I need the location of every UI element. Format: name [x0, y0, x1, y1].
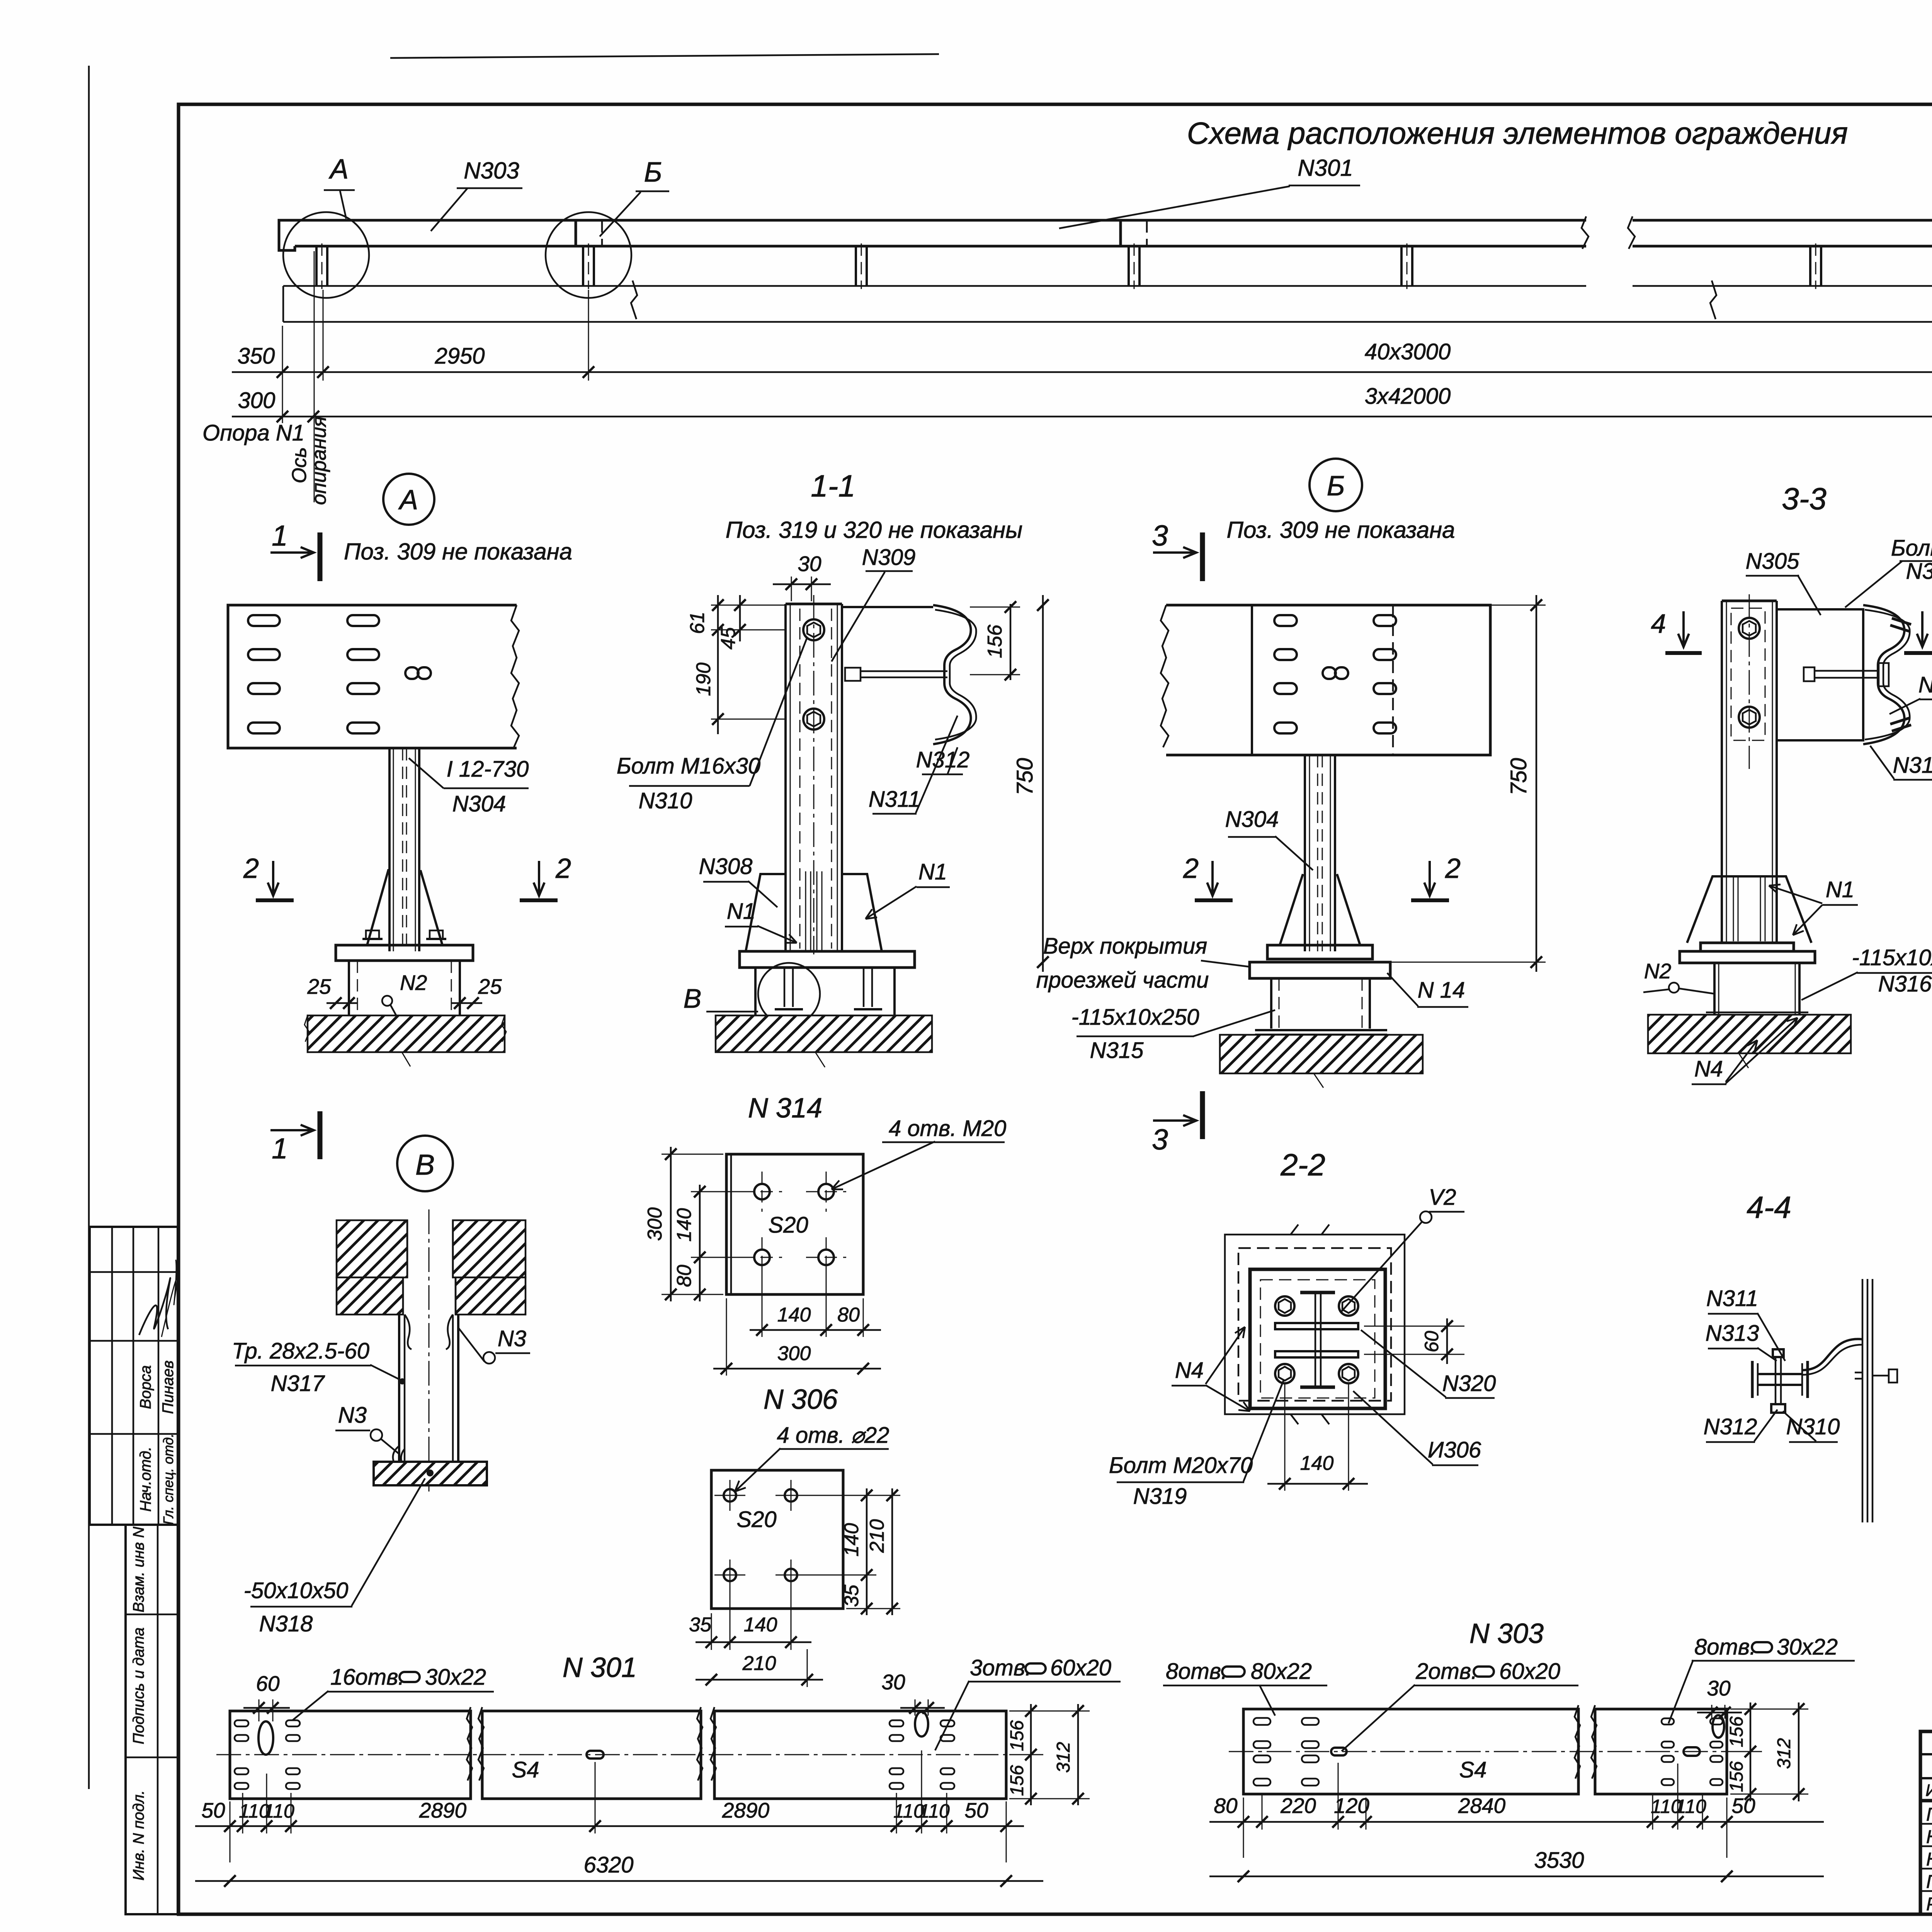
plan dim line 3x42000 [232, 416, 1932, 418]
dim 750 right of B [1536, 595, 1537, 972]
svg-text:Верх покрытия: Верх покрытия [1043, 934, 1207, 959]
svg-text:30: 30 [881, 1670, 905, 1694]
detail V slot walls [406, 1220, 408, 1277]
svg-text:2: 2 [243, 853, 259, 884]
N301 dim 6320 [195, 1880, 1043, 1882]
svg-text:Н.контр.: Н.контр. [1926, 1849, 1932, 1870]
3-3 concrete footing [1648, 1015, 1851, 1053]
svg-text:4: 4 [1651, 609, 1666, 639]
svg-text:8отв.: 8отв. [1694, 1634, 1756, 1660]
svg-text:Взам. инв N: Взам. инв N [130, 1527, 147, 1612]
view A plate slots [248, 615, 280, 626]
N306 dims 140 210 right [866, 1488, 868, 1615]
2-2 dashed square [1238, 1248, 1391, 1401]
4-4 rail lines [1862, 1279, 1864, 1522]
1-1 base plate [740, 951, 915, 968]
svg-text:N 14: N 14 [1418, 978, 1465, 1003]
view A base stiffeners [367, 870, 389, 945]
svg-text:N316: N316 [1878, 971, 1932, 997]
N301 middle slot [587, 1751, 604, 1759]
N303 break marks [1575, 1705, 1597, 1779]
svg-text:N311: N311 [869, 787, 920, 812]
svg-text:4 отв. ⌀22: 4 отв. ⌀22 [777, 1423, 889, 1448]
plan beam bottom edge right part [1633, 245, 1932, 248]
svg-text:156: 156 [1726, 1716, 1747, 1747]
plan beam left end cap [279, 220, 295, 250]
view A concrete footing [308, 1015, 505, 1052]
2-2 connection plates N320 [1275, 1323, 1358, 1329]
N303 left end slots [1253, 1718, 1270, 1725]
svg-text:30х22: 30х22 [425, 1665, 486, 1690]
3-3 base plate wide [1680, 951, 1815, 963]
N303 right middle slot [1684, 1747, 1700, 1756]
plan post at 833 [315, 246, 318, 286]
svg-text:4 отв. М20: 4 отв. М20 [889, 1116, 1006, 1141]
svg-text:2: 2 [1445, 853, 1461, 884]
N301 right slot 30 vertical [915, 1712, 928, 1736]
dim 750 left of B [1042, 595, 1044, 972]
svg-text:N301: N301 [1298, 155, 1353, 181]
svg-text:45: 45 [717, 627, 740, 650]
svg-text:Подпись и дата: Подпись и дата [130, 1628, 147, 1745]
svg-text:6320: 6320 [583, 1852, 633, 1878]
svg-text:312: 312 [1774, 1738, 1794, 1769]
N303 centerline [1229, 1751, 1743, 1752]
svg-text:50: 50 [201, 1798, 225, 1822]
svg-text:Гл. инж. пр: Гл. инж. пр [1926, 1804, 1932, 1825]
svg-text:Изм.: Изм. [1925, 1781, 1932, 1800]
2-2 bolts [1275, 1296, 1294, 1316]
1-1 rail W profile [933, 605, 971, 744]
N301 dim line 1 [195, 1825, 1024, 1827]
2-2 I-beam section [1300, 1291, 1335, 1294]
svg-text:N320: N320 [1442, 1371, 1496, 1396]
svg-text:В: В [684, 983, 702, 1014]
N303 dim line 1 [1209, 1821, 1824, 1823]
svg-text:N318: N318 [259, 1611, 313, 1636]
title block outer [1920, 1731, 1932, 1914]
svg-text:N3: N3 [498, 1326, 526, 1351]
svg-text:3: 3 [1152, 519, 1168, 552]
view B callout circle [1310, 459, 1362, 511]
svg-text:проезжей части: проезжей части [1036, 968, 1209, 993]
svg-text:N305: N305 [1746, 549, 1799, 574]
svg-text:140: 140 [673, 1208, 696, 1242]
top smudge line [390, 54, 939, 58]
plan beam top edge right part [1633, 219, 1932, 222]
section mark 3 bottom [1200, 1091, 1205, 1139]
1-1 post channel [786, 603, 842, 605]
left stamp upper box grid [90, 1227, 178, 1525]
svg-text:60: 60 [256, 1672, 280, 1696]
svg-text:350: 350 [238, 344, 275, 369]
4-4 bracket channel [1751, 1361, 1754, 1398]
svg-text:Болт М16х45: Болт М16х45 [1891, 536, 1932, 561]
detail V anchor tube [398, 1315, 400, 1462]
svg-text:N309: N309 [1906, 559, 1932, 584]
svg-text:156: 156 [984, 625, 1006, 658]
svg-text:Болт М20х70: Болт М20х70 [1109, 1453, 1253, 1478]
N303 center slot [1331, 1748, 1347, 1755]
1-1 rail bolt [845, 668, 861, 681]
N306 plate [711, 1470, 843, 1609]
svg-text:220: 220 [1280, 1794, 1316, 1818]
section mark 3 top [1200, 532, 1205, 581]
svg-text:1: 1 [272, 1132, 288, 1165]
N306 dim 210 right [891, 1488, 893, 1615]
N306 dims bottom 35 140 [711, 1613, 712, 1650]
svg-text:N310: N310 [1786, 1414, 1840, 1439]
svg-text:N2: N2 [400, 971, 427, 995]
svg-text:Б: Б [644, 157, 662, 188]
svg-text:N4: N4 [1175, 1358, 1204, 1383]
2-2 inner dashed [1260, 1280, 1375, 1398]
svg-text:В: В [415, 1148, 435, 1181]
axis line left Os opiraniya [314, 251, 315, 502]
svg-text:N303: N303 [464, 158, 519, 184]
detail circle A left [283, 212, 369, 298]
svg-text:80: 80 [673, 1265, 696, 1287]
N301 beam segment 3 [714, 1711, 1006, 1799]
svg-text:140: 140 [840, 1523, 863, 1557]
svg-text:210: 210 [742, 1652, 776, 1675]
deck band break marks [631, 281, 637, 319]
svg-text:S4: S4 [1459, 1757, 1487, 1782]
section mark 1 top [318, 532, 323, 581]
svg-text:61: 61 [686, 612, 709, 634]
svg-text:35: 35 [840, 1584, 863, 1607]
1-1 dim 156 [1010, 604, 1012, 680]
left stamp lower box grid [126, 1525, 178, 1914]
1-1 concrete footing [716, 1015, 932, 1052]
N303 beam segment 1 [1243, 1709, 1578, 1794]
svg-text:-115х10х250: -115х10х250 [1071, 1005, 1199, 1030]
1-1 anchor bars [805, 871, 806, 951]
detail V tube weld top [405, 1315, 412, 1349]
svg-text:Гл. спец. отд.: Гл. спец. отд. [160, 1434, 176, 1525]
svg-text:1-1: 1-1 [811, 469, 855, 503]
beam lap joint at 1490 [575, 220, 577, 246]
2-2 dim 60 [1446, 1318, 1448, 1364]
svg-text:30: 30 [1707, 1676, 1731, 1700]
plan beam bottom edge left part [295, 245, 1586, 248]
svg-text:N312: N312 [1704, 1414, 1757, 1439]
title block horizontals left [1920, 1753, 1932, 1755]
svg-text:60: 60 [1421, 1331, 1442, 1352]
page outer left edge line [88, 66, 90, 1789]
svg-text:Б: Б [1327, 471, 1345, 502]
svg-text:2отв.: 2отв. [1415, 1659, 1477, 1684]
svg-text:1: 1 [272, 519, 288, 552]
svg-text:Проверил: Проверил [1926, 1872, 1932, 1892]
4-4 bracket bolt [1773, 1349, 1784, 1357]
2-2 dim 140 [1284, 1383, 1286, 1491]
N306 dim 210 bottom [807, 1649, 808, 1687]
svg-text:3: 3 [1152, 1123, 1168, 1156]
svg-text:N 314: N 314 [748, 1093, 822, 1124]
svg-text:4-4: 4-4 [1747, 1190, 1791, 1225]
svg-text:25: 25 [307, 975, 331, 998]
1-1 post bolts [803, 619, 824, 640]
svg-text:N311: N311 [1918, 672, 1932, 697]
svg-text:Опора N1: Опора N1 [202, 420, 304, 446]
svg-text:120: 120 [1334, 1794, 1369, 1818]
plan post at 3641 [1400, 246, 1403, 286]
svg-text:2890: 2890 [419, 1798, 467, 1822]
1-1 detail circle V [758, 963, 820, 1025]
section mark 1 bottom [318, 1111, 323, 1159]
svg-text:156: 156 [1726, 1761, 1747, 1792]
svg-text:50: 50 [1731, 1794, 1755, 1818]
view B pedestal bottom plate [1255, 1029, 1387, 1031]
1-1 rail top line [842, 606, 933, 608]
svg-text:N 306: N 306 [764, 1384, 838, 1415]
N301 centerline [216, 1754, 1020, 1755]
svg-text:N 303: N 303 [1469, 1618, 1544, 1649]
svg-text:140: 140 [744, 1614, 777, 1636]
4-4 rail bolt [1872, 1375, 1889, 1377]
svg-text:60х20: 60х20 [1050, 1655, 1111, 1680]
extension lines plan dims [282, 326, 283, 423]
svg-text:156: 156 [1007, 1720, 1027, 1751]
svg-text:N304: N304 [1225, 807, 1279, 832]
svg-text:-115х10х230: -115х10х230 [1852, 945, 1932, 970]
svg-text:N 301: N 301 [563, 1652, 637, 1683]
svg-text:80: 80 [1214, 1794, 1238, 1818]
N301 beam segment 1 [230, 1711, 471, 1799]
svg-text:30х22: 30х22 [1777, 1634, 1838, 1660]
svg-text:3х42000: 3х42000 [1365, 384, 1451, 409]
svg-text:Разраб.: Разраб. [1926, 1894, 1932, 1915]
plan dim line 40x3000 [232, 371, 1932, 373]
svg-text:Инв. N подл.: Инв. N подл. [130, 1790, 147, 1881]
svg-text:Пинаев: Пинаев [160, 1361, 177, 1414]
svg-text:V2: V2 [1429, 1185, 1456, 1210]
svg-text:300: 300 [777, 1342, 811, 1365]
svg-text:N304: N304 [452, 791, 506, 816]
3-3 base plate small [1701, 943, 1794, 951]
detail V base plate [374, 1462, 487, 1485]
svg-text:Нач.отд.: Нач.отд. [137, 1447, 154, 1512]
svg-text:Поз. 309 не показана: Поз. 309 не показана [344, 539, 572, 565]
svg-text:S4: S4 [512, 1757, 539, 1782]
svg-text:N1: N1 [1826, 877, 1854, 902]
plan beam break mark [1582, 216, 1635, 249]
N301 dims 156 156 312 right [1009, 1711, 1090, 1712]
svg-text:Ось: Ось [288, 447, 311, 483]
1-1 base stiffeners [746, 874, 786, 951]
svg-text:N312: N312 [916, 747, 970, 772]
view B plate [1166, 605, 1490, 755]
svg-text:3-3: 3-3 [1782, 481, 1827, 516]
svg-text:80: 80 [837, 1304, 860, 1326]
svg-text:156: 156 [1007, 1765, 1027, 1796]
svg-text:N317: N317 [271, 1371, 325, 1396]
svg-text:80х22: 80х22 [1251, 1659, 1312, 1684]
N314 dim 300 left [670, 1147, 672, 1301]
2-2 pedestal outer square [1225, 1235, 1405, 1414]
svg-text:N315: N315 [1090, 1038, 1144, 1063]
svg-text:30: 30 [798, 552, 821, 576]
view A pedestal [348, 961, 350, 1015]
view B concrete footing [1220, 1035, 1423, 1073]
detail V concrete slabs [337, 1220, 407, 1277]
N306 holes [724, 1489, 736, 1502]
N314 dims 140 80 bottom [762, 1266, 763, 1337]
beam lap joint at 2900 [1119, 220, 1122, 246]
3-3 rail W profile [1863, 605, 1905, 744]
svg-text:16отв.: 16отв. [330, 1665, 404, 1690]
detail V weld bottom [393, 1446, 405, 1462]
svg-text:Нач.пр.гр.: Нач.пр.гр. [1926, 1827, 1932, 1847]
svg-text:А: А [398, 485, 418, 515]
N314 dim 300 bottom [726, 1298, 727, 1376]
svg-text:2: 2 [555, 853, 571, 884]
3-3 spacer block [1777, 609, 1863, 740]
view A callout circle [383, 474, 434, 525]
svg-text:N319: N319 [1133, 1484, 1187, 1509]
svg-text:40х3000: 40х3000 [1365, 339, 1451, 364]
view B plate joint lines [1251, 605, 1253, 755]
N301 beam segment 2 [482, 1711, 701, 1799]
svg-text:Ворса: Ворса [137, 1365, 154, 1409]
4-4 curved arm [1801, 1339, 1862, 1370]
N303 beam segment 2 [1595, 1709, 1727, 1794]
svg-text:2: 2 [1183, 853, 1199, 884]
3-3 post [1722, 600, 1777, 602]
plan post at 1523 [582, 246, 584, 286]
svg-text:60х20: 60х20 [1499, 1659, 1560, 1684]
svg-text:2950: 2950 [434, 344, 485, 369]
svg-text:2-2: 2-2 [1280, 1148, 1325, 1182]
svg-text:N1: N1 [918, 859, 947, 884]
svg-text:N4: N4 [1694, 1056, 1723, 1082]
svg-text:N312: N312 [1893, 753, 1932, 778]
view B plate slots [1274, 615, 1297, 626]
N301 break marks [467, 1707, 484, 1781]
view B base plate small [1267, 945, 1372, 959]
3-3 base stiffener [1687, 876, 1811, 943]
N303 right slots [1662, 1718, 1674, 1725]
svg-text:А: А [328, 154, 349, 185]
svg-text:-50х10х50: -50х10х50 [244, 1578, 349, 1603]
svg-text:опирания: опирания [308, 416, 330, 505]
svg-text:I 12-730: I 12-730 [447, 757, 529, 782]
svg-text:210: 210 [866, 1519, 888, 1553]
svg-text:Поз. 319 и 320 не показаны: Поз. 319 и 320 не показаны [726, 517, 1023, 543]
svg-text:750: 750 [1012, 758, 1037, 796]
svg-text:140: 140 [1300, 1452, 1334, 1475]
svg-text:N310: N310 [639, 788, 692, 813]
svg-text:3отв.: 3отв. [970, 1655, 1031, 1680]
N314 plate [726, 1154, 863, 1294]
plan post at 2229 [855, 246, 857, 286]
svg-text:3530: 3530 [1534, 1848, 1584, 1873]
view A plate center ovals [405, 667, 418, 679]
svg-text:110: 110 [1675, 1796, 1706, 1817]
svg-text:N309: N309 [862, 545, 916, 570]
svg-text:Тр. 28х2.5-60: Тр. 28х2.5-60 [232, 1338, 369, 1364]
svg-text:750: 750 [1506, 758, 1531, 796]
N314 dims 140 80 left [699, 1185, 701, 1301]
svg-text:35: 35 [689, 1614, 712, 1636]
svg-text:140: 140 [777, 1304, 811, 1326]
view A base plate [336, 945, 473, 961]
N303 right top slot vertical [1713, 1715, 1724, 1738]
view B pedestal [1270, 978, 1272, 1029]
svg-text:300: 300 [238, 388, 276, 413]
svg-text:8отв.: 8отв. [1166, 1659, 1227, 1684]
svg-text:N3: N3 [338, 1403, 367, 1428]
deck band left step [282, 286, 284, 322]
svg-text:110: 110 [264, 1800, 294, 1822]
svg-text:Болт М16х30: Болт М16х30 [617, 753, 760, 779]
svg-text:И306: И306 [1428, 1437, 1481, 1463]
stamp signatures [139, 1278, 170, 1335]
3-3 anchor bars [1733, 876, 1734, 941]
deck edge band bottom line [283, 321, 1932, 323]
svg-text:312: 312 [1053, 1742, 1074, 1773]
N314 holes [754, 1184, 770, 1199]
3-3 rail bolts and washers [1892, 618, 1911, 624]
view B base plate wide N14 [1250, 962, 1390, 978]
detail circle B left [546, 212, 631, 298]
svg-text:N308: N308 [699, 854, 753, 879]
2-2 plate N306 square [1250, 1269, 1385, 1408]
svg-text:Схема расположения элементов о: Схема расположения элементов ограждения [1187, 116, 1848, 150]
detail V callout circle [397, 1136, 453, 1191]
view A post [388, 748, 391, 951]
svg-text:190: 190 [692, 663, 715, 696]
svg-text:N313: N313 [1706, 1321, 1759, 1346]
plan beam top edge left part [279, 219, 1586, 222]
view B base stiffeners [1280, 874, 1303, 945]
view B center ovals [1323, 667, 1336, 679]
view A plate [228, 605, 517, 748]
N303 dim 3530 [1209, 1876, 1824, 1878]
svg-text:300: 300 [644, 1207, 666, 1241]
view B post [1304, 755, 1306, 951]
svg-text:S20: S20 [736, 1507, 776, 1532]
3-3 pedestal [1713, 963, 1716, 1015]
1-1 pedestal anchors [754, 968, 757, 1015]
N301 left end slots [235, 1720, 248, 1726]
svg-text:S20: S20 [768, 1213, 808, 1238]
svg-text:110: 110 [919, 1800, 950, 1822]
plan post at 2935 [1128, 246, 1130, 286]
svg-text:25: 25 [478, 975, 502, 998]
svg-text:2840: 2840 [1458, 1794, 1506, 1818]
svg-text:2890: 2890 [722, 1798, 770, 1822]
svg-text:50: 50 [964, 1798, 988, 1822]
deck edge band top line [283, 285, 1586, 287]
3-3 post bolts [1739, 618, 1760, 639]
svg-text:Поз. 309 не показана: Поз. 309 не показана [1227, 517, 1455, 543]
svg-text:N311: N311 [1706, 1286, 1758, 1311]
N303 dims 156 156 312 right [1730, 1709, 1808, 1710]
1-1 left dims 61 45 190 [717, 595, 719, 734]
N301 right end slots [889, 1720, 903, 1726]
plan post at 4699 [1809, 246, 1811, 286]
svg-text:N2: N2 [1644, 959, 1671, 983]
view A anchor bolt heads [366, 930, 379, 939]
N301 center slot vertical [259, 1721, 273, 1755]
